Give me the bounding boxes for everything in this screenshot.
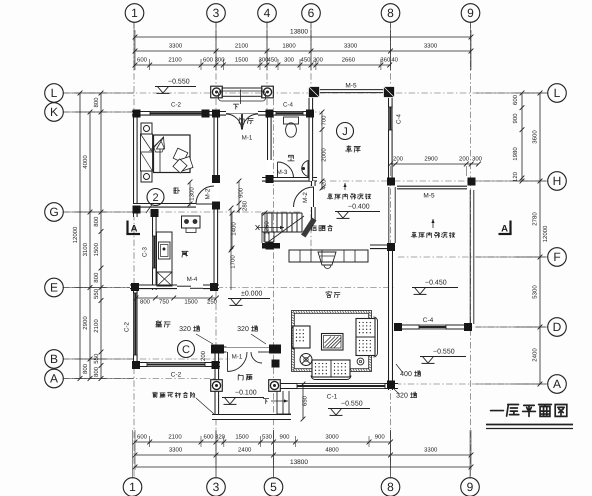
svg-text:2000: 2000 [321, 148, 328, 162]
svg-text:13800: 13800 [290, 459, 308, 466]
svg-text:280: 280 [242, 200, 249, 211]
axis bubble 3 top [207, 4, 226, 23]
svg-text:9: 9 [467, 6, 474, 20]
axis K line [63, 111, 320, 113]
svg-text:40: 40 [391, 57, 398, 64]
entry porch column right [262, 86, 274, 98]
right dim column spans [539, 93, 541, 384]
wall court east thin [469, 190, 471, 324]
svg-text:K: K [50, 105, 58, 119]
svg-text:L: L [51, 86, 58, 100]
section flag A right [509, 221, 511, 235]
svg-text:800: 800 [93, 216, 100, 227]
door M-4 gap [177, 284, 203, 290]
svg-text:900: 900 [375, 434, 386, 441]
svg-text:12000: 12000 [72, 226, 79, 243]
svg-text:360: 360 [380, 57, 391, 64]
bottom dim extension lines [134, 430, 136, 470]
svg-text:M-5: M-5 [345, 83, 357, 90]
wall bedroom west (axis 1) [133, 111, 138, 217]
svg-text:6: 6 [308, 6, 315, 20]
svg-text:C: C [182, 344, 190, 356]
axis A line right [395, 383, 548, 385]
svg-text:A: A [501, 224, 508, 235]
svg-text:2900: 2900 [82, 316, 89, 330]
label bathroom [288, 155, 294, 161]
svg-text:4000: 4000 [82, 155, 89, 169]
svg-text:2100: 2100 [168, 434, 182, 441]
window C-2 bedroom north [150, 111, 202, 116]
porch side step lines [276, 391, 278, 414]
door M-3 gap [267, 160, 273, 178]
svg-text:3: 3 [213, 480, 220, 494]
svg-text:M-1: M-1 [242, 135, 253, 142]
svg-text:3: 3 [213, 6, 220, 20]
axis bubble 8 bottom [381, 478, 400, 496]
svg-text:900: 900 [512, 113, 519, 124]
plant pot [300, 354, 312, 366]
svg-text:−0.550: −0.550 [433, 348, 455, 355]
axis bubble 1 bottom [123, 478, 142, 496]
kitchen counter [157, 232, 173, 272]
axis B line [63, 358, 230, 360]
entry porch steps [222, 88, 262, 96]
svg-text:C-2: C-2 [171, 372, 182, 379]
column garage door west pier [309, 87, 320, 98]
axis bubble F right [548, 248, 567, 267]
svg-text:1800: 1800 [282, 43, 296, 50]
left dim column detail [100, 93, 102, 379]
svg-text:450: 450 [300, 57, 311, 64]
wardrobe column bottom [141, 171, 152, 182]
wall D axis [396, 325, 471, 330]
stair landing wall [262, 243, 280, 249]
svg-text:320: 320 [396, 393, 408, 400]
left dim column overall [79, 93, 81, 379]
svg-text:900: 900 [238, 187, 245, 198]
sofa bottom two-seat [312, 360, 350, 377]
svg-text:2100: 2100 [235, 43, 249, 50]
svg-text:3300: 3300 [424, 43, 438, 50]
axis bubble 6 top [302, 4, 321, 23]
dim stair width [231, 213, 233, 248]
door M-2 stair arc [294, 187, 314, 207]
axis bubble K left [45, 103, 64, 122]
axis bubble A left [45, 369, 64, 388]
label rear terrace [311, 225, 316, 231]
svg-text:2660: 2660 [342, 57, 356, 64]
porch hatched column left [211, 345, 224, 354]
wall porch west [215, 350, 220, 415]
wall stair diag [301, 218, 317, 238]
axis A line left [63, 378, 215, 380]
wall kitchen south (E) [130, 285, 219, 290]
top dim row detail [135, 64, 391, 66]
svg-text:−0.450: −0.450 [425, 279, 447, 286]
deco flower [357, 358, 364, 365]
svg-text:8: 8 [387, 480, 394, 494]
dim hall column [238, 181, 240, 213]
right dim extension lines [516, 92, 546, 94]
window C-1 living south [297, 383, 385, 389]
label garage floor note 1 [327, 194, 333, 200]
svg-text:300: 300 [472, 156, 483, 163]
terrace step edge right [302, 384, 304, 419]
top dim row overall 13800 [135, 36, 471, 38]
svg-text:420: 420 [321, 179, 328, 190]
svg-text:13800: 13800 [290, 29, 308, 36]
svg-text:3600: 3600 [532, 130, 539, 144]
window C-2 dining west [133, 293, 138, 355]
svg-text:3100: 3100 [82, 242, 89, 256]
svg-text:1250: 1250 [264, 221, 271, 235]
axis bubble 4 top [258, 4, 277, 23]
svg-text:2900: 2900 [424, 156, 438, 163]
svg-text:800: 800 [93, 366, 100, 377]
axis D line [398, 326, 548, 328]
dim bath right column [321, 111, 323, 190]
svg-text:600: 600 [203, 434, 214, 441]
label garage floor note 2 [411, 232, 417, 238]
axis G line [63, 211, 300, 213]
svg-text:M-3: M-3 [277, 169, 288, 176]
structural columns [133, 110, 141, 118]
svg-text:F: F [553, 250, 560, 264]
door M-4 sliding symbol [177, 285, 191, 287]
svg-text:2780: 2780 [532, 212, 539, 226]
svg-text:4800: 4800 [325, 447, 339, 454]
porch hatched column right [269, 345, 281, 354]
label entry hall [239, 118, 244, 124]
entry door opening M-1 gap [226, 111, 258, 117]
svg-text:−0.100: −0.100 [235, 389, 257, 396]
decorative beam strip with planter [289, 250, 368, 262]
south porch column left [211, 380, 223, 392]
svg-text:−0.400: −0.400 [348, 203, 370, 210]
svg-text:2: 2 [152, 192, 158, 204]
top dim row spans [135, 50, 471, 52]
axis bubble L left [45, 84, 64, 103]
wall garage north garage-door M-5 [317, 89, 384, 91]
svg-text:B: B [50, 352, 58, 366]
column garage door east pier [384, 87, 395, 98]
bottom dim row spans [135, 454, 471, 456]
wall entry north (K axis) [219, 111, 271, 116]
svg-text:M-5: M-5 [423, 193, 435, 200]
door gap bedroom south [196, 203, 213, 209]
label down top porch [233, 104, 238, 109]
door M-3 bath arc [278, 162, 294, 178]
door M-2 bedroom arc [196, 186, 214, 204]
axis bubble B left [45, 350, 64, 369]
axis bubble 9 top [461, 4, 480, 23]
axis bubble 2 interior [147, 189, 164, 206]
svg-text:200: 200 [313, 57, 324, 64]
svg-text:1980: 1980 [512, 147, 519, 161]
axis bubble E left [45, 278, 64, 297]
svg-text:3300: 3300 [169, 447, 183, 454]
svg-text:3000: 3000 [325, 434, 339, 441]
porch south slab [212, 414, 291, 420]
axis H line [330, 180, 548, 182]
wall F stub [370, 245, 392, 250]
svg-text:200: 200 [200, 350, 207, 361]
svg-text:9: 9 [467, 480, 474, 494]
title first floor plan [491, 405, 504, 417]
svg-text:D: D [553, 320, 562, 334]
svg-text:1300: 1300 [189, 187, 196, 201]
svg-text:600: 600 [137, 434, 148, 441]
svg-text:2100: 2100 [168, 57, 182, 64]
window C-4 bath north [276, 111, 303, 116]
axis F line [398, 256, 548, 258]
svg-text:600: 600 [512, 94, 519, 105]
svg-text:M-1: M-1 [232, 354, 243, 361]
wall bath south [262, 177, 317, 182]
svg-text:1400: 1400 [231, 222, 238, 236]
wall bedroom south (G) [133, 203, 219, 208]
svg-text:300: 300 [284, 57, 295, 64]
dim kitchen right [230, 208, 232, 290]
top dim extension lines [134, 30, 136, 70]
svg-text:1700: 1700 [230, 255, 237, 269]
wall living east (axis 8) [388, 245, 393, 391]
svg-text:200: 200 [459, 156, 470, 163]
kitchen sink [159, 242, 171, 259]
wall bedroom north (K axis) [132, 111, 219, 116]
door M-1 porch arcs [227, 352, 229, 372]
bottom dim row overall [135, 466, 471, 468]
wall bath west (axis 4) [267, 111, 272, 181]
svg-text:8: 8 [387, 6, 394, 20]
axis bubble 3 bottom [207, 478, 226, 496]
axis bubble H right [548, 172, 567, 191]
axis 4 line [266, 22, 268, 120]
wall stair east [311, 181, 316, 220]
svg-text:1500: 1500 [235, 57, 249, 64]
svg-text:550: 550 [93, 288, 100, 299]
door M-1 porch gap [227, 346, 272, 353]
axis 8 line [390, 22, 392, 479]
svg-text:320: 320 [179, 326, 191, 333]
svg-text:600: 600 [203, 57, 214, 64]
svg-text:5: 5 [270, 480, 277, 494]
axis L line [63, 92, 548, 94]
label kitchen [182, 251, 188, 257]
svg-text:M-2: M-2 [302, 192, 309, 203]
label porch [238, 374, 243, 380]
svg-text:800: 800 [140, 299, 151, 306]
coffee table [322, 334, 344, 351]
dim stair run [264, 213, 266, 244]
svg-text:450: 450 [267, 57, 278, 64]
svg-text:12000: 12000 [542, 225, 549, 242]
svg-text:4: 4 [264, 6, 271, 20]
svg-text:−0.550: −0.550 [341, 400, 363, 407]
axis bubble 5 bottom [264, 478, 283, 496]
svg-text:320: 320 [237, 326, 249, 333]
section flag A left [126, 221, 128, 235]
svg-text:250: 250 [207, 299, 218, 306]
axis bubble A right [548, 375, 567, 394]
svg-text:1500: 1500 [93, 242, 100, 256]
svg-text:3300: 3300 [169, 43, 183, 50]
svg-text:C-4: C-4 [423, 317, 434, 324]
wall dining west (axis 1) [133, 284, 138, 368]
axis leader solid segments [133, 22, 135, 71]
wall porch north (B) [211, 347, 281, 353]
window C-3 kitchen west [152, 236, 157, 268]
svg-text:1500: 1500 [184, 299, 198, 306]
svg-text:M-4: M-4 [187, 276, 198, 283]
wardrobe column top [141, 123, 152, 134]
svg-text:−0.550: −0.550 [168, 78, 190, 85]
sofa right two-seat [356, 319, 375, 356]
svg-text:2100: 2100 [93, 319, 100, 333]
staircase [261, 213, 263, 232]
svg-text:1: 1 [129, 480, 136, 494]
south porch column right [269, 380, 281, 392]
wall bath north (K axis) [267, 111, 313, 116]
svg-text:3300: 3300 [424, 447, 438, 454]
svg-text:A: A [131, 224, 138, 235]
svg-text:650: 650 [302, 395, 309, 406]
axis 9 line [470, 22, 472, 479]
axis bubble G left [45, 203, 64, 222]
entry porch column left [211, 86, 223, 98]
svg-text:5300: 5300 [532, 285, 539, 299]
svg-text:M-2: M-2 [205, 188, 212, 199]
wall living south (A) window C-1 [275, 383, 398, 389]
label down bottom [263, 399, 268, 404]
axis bubble 9 bottom [461, 478, 480, 496]
svg-text:C-4: C-4 [396, 113, 403, 124]
window C-4 garage east [388, 107, 393, 130]
armchair top-left [293, 326, 310, 348]
axis bubble 1 top [125, 4, 144, 23]
svg-text:C-4: C-4 [283, 102, 294, 109]
dim court top row [391, 163, 479, 165]
door M-2 bedroom opening gap [213, 183, 219, 204]
axis 6 line [310, 22, 312, 255]
svg-text:550: 550 [93, 353, 100, 364]
axis bubble D right [548, 318, 567, 337]
dim bedroom door [189, 182, 191, 206]
svg-text:2400: 2400 [238, 447, 252, 454]
axis 3 line [215, 22, 217, 479]
svg-text:L: L [554, 86, 561, 100]
svg-text:C-2: C-2 [171, 102, 182, 109]
door M-1 entry arcs [226, 114, 242, 130]
window C-4 D axis [419, 325, 446, 330]
label bedroom [174, 188, 180, 194]
svg-text:C-3: C-3 [142, 246, 149, 257]
svg-text:900: 900 [279, 434, 290, 441]
svg-text:600: 600 [137, 57, 148, 64]
step arrow bottom [271, 400, 288, 402]
svg-text:1: 1 [131, 6, 138, 20]
washbasin [302, 161, 308, 177]
svg-text:800: 800 [93, 97, 100, 108]
svg-text:800: 800 [93, 272, 100, 283]
bottom dim row detail [135, 441, 391, 443]
wall court south (H axis) door M-5 [397, 185, 467, 187]
svg-text:120: 120 [512, 171, 519, 182]
svg-text:E: E [50, 281, 58, 295]
window C-2 dining south [147, 362, 205, 367]
label living room [326, 291, 332, 297]
wall garage west (axis 6) [309, 89, 314, 181]
svg-text:800: 800 [82, 363, 89, 374]
svg-text:±0.000: ±0.000 [241, 290, 262, 297]
dim dining row [136, 297, 216, 299]
axis bubble C interior [178, 341, 195, 358]
wall kitchen west inset [152, 211, 157, 290]
axis bubble 8 top [381, 4, 400, 23]
axis bubble L right [548, 84, 567, 103]
axis E line [63, 287, 395, 289]
label porch steps note [152, 392, 158, 397]
svg-text:C-1: C-1 [327, 394, 338, 401]
wall dining south (B) [132, 362, 220, 367]
bed with pillows and quilt [154, 135, 191, 173]
toilet [284, 117, 299, 124]
right dim column detail [521, 93, 523, 181]
axis bubble J interior [337, 123, 354, 140]
svg-text:2400: 2400 [532, 348, 539, 362]
stove [182, 216, 201, 228]
axis 1 line [133, 22, 135, 479]
svg-text:3300: 3300 [344, 43, 358, 50]
svg-text:700: 700 [321, 115, 328, 126]
left dim column spans [89, 112, 91, 379]
svg-text:J: J [342, 126, 348, 138]
wall garage east (axis 8) [388, 89, 393, 184]
svg-text:530: 530 [262, 434, 273, 441]
wall interior axis3 vertical [214, 111, 219, 291]
svg-text:1500: 1500 [235, 434, 249, 441]
svg-text:A: A [553, 377, 561, 391]
svg-text:750: 750 [159, 299, 170, 306]
label dining room [156, 321, 162, 327]
svg-text:200: 200 [393, 156, 404, 163]
axis 5 line [273, 86, 275, 479]
svg-text:C-2: C-2 [124, 321, 131, 332]
left dim extension lines [74, 92, 106, 94]
svg-text:A: A [50, 372, 58, 386]
flue shaft [157, 272, 172, 286]
rug [292, 311, 372, 372]
svg-text:H: H [553, 174, 562, 188]
door M-2 stair gap [311, 186, 317, 207]
wall axis8 court thin [388, 187, 390, 243]
svg-text:G: G [49, 205, 58, 219]
wardrobe body [141, 134, 153, 171]
label garage [346, 146, 352, 153]
